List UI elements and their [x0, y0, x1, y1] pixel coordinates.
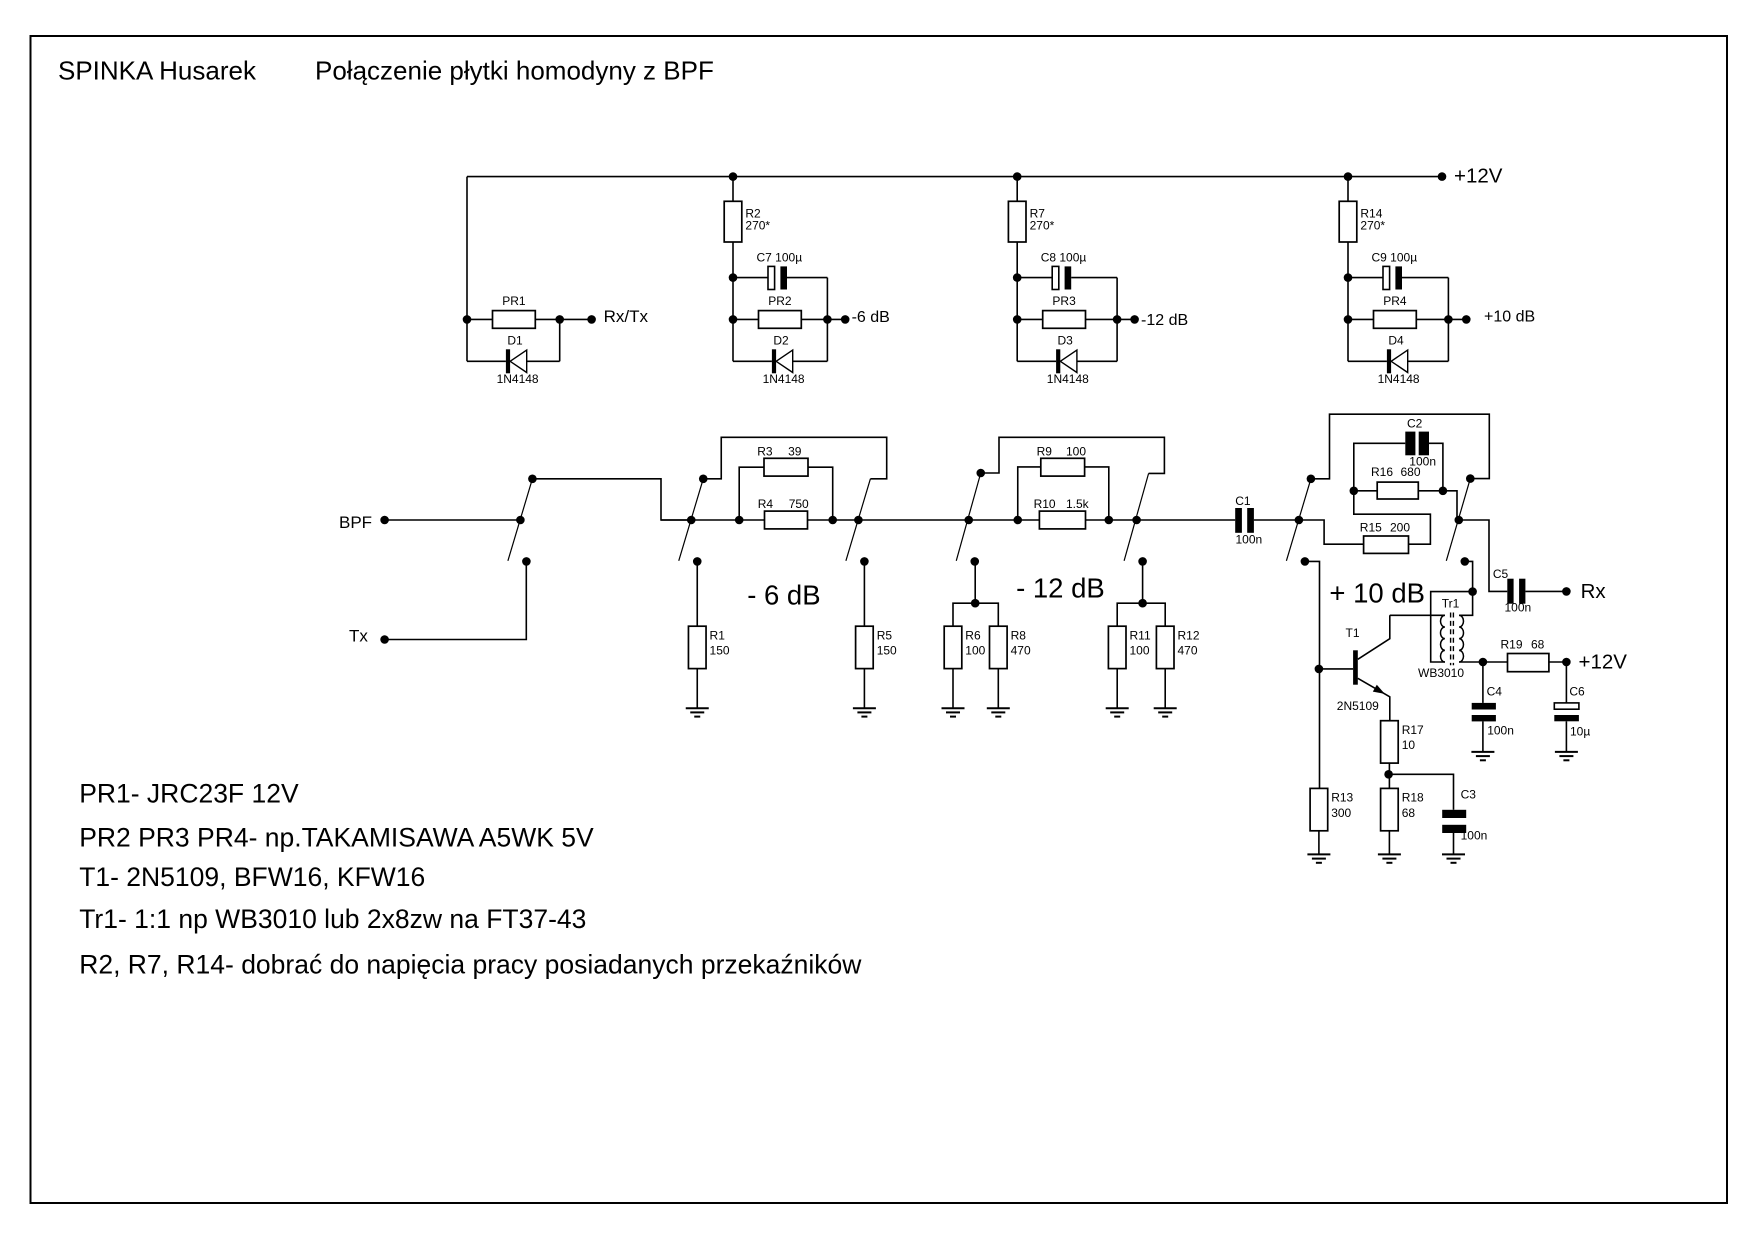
capacitor C3 100n — [1442, 787, 1487, 842]
svg-text:Tx: Tx — [349, 627, 368, 646]
relay contact switch SW1 (PR1) — [508, 475, 537, 566]
resistor R18 — [1381, 788, 1424, 830]
wire R9 branch right — [1085, 467, 1109, 520]
svg-text:300: 300 — [1331, 806, 1351, 820]
wire R3 branch left — [739, 467, 764, 520]
svg-text:10: 10 — [1402, 738, 1416, 752]
wire R16 right lead — [1418, 490, 1443, 492]
svg-text:100n: 100n — [1409, 454, 1436, 468]
junction R10 right — [1105, 516, 1114, 525]
svg-text:R2, R7, R14- dobrać do napięci: R2, R7, R14- dobrać do napięcia pracy po… — [79, 950, 862, 980]
relay contact switch SW2 (PR1) — [679, 475, 708, 566]
svg-text:+ 10 dB: + 10 dB — [1329, 578, 1425, 609]
relay coil PR1 — [467, 294, 560, 328]
wire main line -6dB section — [661, 519, 765, 521]
wire R6 to ground — [952, 669, 954, 709]
relay contact switch SW4 (PR2) — [956, 469, 985, 566]
wire R5 to ground — [863, 669, 865, 709]
junction R16 left — [1350, 487, 1359, 496]
svg-text:R12: R12 — [1178, 628, 1200, 642]
svg-text:100n: 100n — [1461, 828, 1488, 842]
diode D2 1N4148 — [763, 334, 805, 387]
svg-text:D3: D3 — [1058, 334, 1074, 348]
svg-text:270*: 270* — [1360, 219, 1385, 233]
node +12V (amp) — [1562, 651, 1627, 674]
svg-text:PR1: PR1 — [502, 294, 526, 308]
wire to C4 — [1482, 662, 1484, 703]
wire R2 to PR2 coil — [732, 242, 734, 361]
capacitor C1 100n — [1235, 494, 1262, 547]
svg-text:10µ: 10µ — [1570, 724, 1590, 738]
junction rail/R14 — [1344, 172, 1353, 181]
resistor R8 — [990, 626, 1031, 668]
wire C6 to ground — [1565, 721, 1567, 752]
junction PR4 right — [1444, 315, 1453, 324]
svg-text:C1: C1 — [1235, 494, 1251, 508]
svg-text:- 12 dB: - 12 dB — [1016, 573, 1105, 604]
svg-text:-6 dB: -6 dB — [852, 309, 890, 326]
wire Tr1 primary bottom loop — [1431, 592, 1473, 662]
ground R8 — [987, 708, 1010, 716]
node -6 dB — [841, 309, 890, 326]
svg-text:1N4148: 1N4148 — [763, 372, 805, 386]
svg-text:R4: R4 — [758, 497, 774, 511]
wire R13 to ground — [1318, 831, 1320, 855]
capacitor C6 10µ — [1554, 685, 1590, 739]
node +12V terminal — [1438, 165, 1503, 188]
wire R16 left lead — [1354, 490, 1377, 492]
wire Tx to SW1 lower contact — [385, 562, 527, 640]
wire rail to R7 — [1016, 177, 1018, 202]
junction R11/R12 tee — [1138, 599, 1147, 608]
wire amp bypass — [1311, 414, 1489, 479]
resistor R15 200 — [1360, 521, 1411, 554]
wire D1 anode loop — [467, 360, 506, 362]
svg-text:C4: C4 — [1487, 685, 1503, 699]
svg-text:C3: C3 — [1461, 787, 1477, 801]
junction R3 left — [735, 516, 744, 525]
wire R16 right to SW7 pole — [1443, 491, 1459, 520]
wire PR3 stub — [1117, 318, 1135, 320]
svg-text:PR2: PR2 — [768, 294, 792, 308]
svg-text:Tr1: Tr1 — [1442, 597, 1460, 611]
transformer Tr1 WB3010 — [1390, 597, 1465, 680]
wire junction to C3 — [1389, 774, 1454, 810]
wire D1 cathode loop — [527, 360, 560, 362]
wire to R19 — [1483, 661, 1508, 663]
wire -12dB bypass — [981, 437, 1164, 473]
wire tee to R12 — [1143, 603, 1166, 626]
svg-text:470: 470 — [1178, 644, 1198, 658]
wire SW1 upper to SW2 — [532, 479, 691, 520]
ground C4 — [1471, 752, 1494, 760]
wire SW7 pole to C5 — [1459, 520, 1508, 591]
resistor R16 680 — [1371, 465, 1421, 499]
svg-text:R5: R5 — [877, 628, 893, 642]
node +10 dB — [1462, 309, 1535, 326]
svg-text:R11: R11 — [1130, 628, 1151, 642]
wire C9 right to D4 — [1447, 278, 1449, 362]
svg-text:750: 750 — [789, 497, 809, 511]
svg-text:1N4148: 1N4148 — [497, 372, 539, 386]
svg-text:100n: 100n — [1487, 724, 1514, 738]
wire C3 to ground — [1453, 833, 1455, 854]
relay contact switch SW6 (PR4) — [1286, 475, 1315, 566]
ground R12 — [1154, 708, 1177, 716]
svg-text:Rx/Tx: Rx/Tx — [604, 307, 649, 326]
junction R4 right — [828, 516, 837, 525]
resistor R2 270* — [724, 201, 770, 242]
resistor R10 1.5k — [1034, 497, 1090, 529]
svg-text:2N5109: 2N5109 — [1337, 699, 1379, 713]
capacitor C7 100µ — [733, 250, 827, 289]
wire rail to PR1 coil — [466, 177, 468, 362]
junction Tr1 output node — [1468, 587, 1477, 596]
wire rail to R14 — [1347, 177, 1349, 202]
node BPF — [339, 513, 389, 532]
svg-text:T1: T1 — [1346, 626, 1360, 640]
svg-text:470: 470 — [1011, 644, 1031, 658]
junction T1 base node — [1315, 665, 1324, 674]
relay contact switch SW7 (PR4) — [1446, 474, 1474, 565]
wire C4 to ground — [1482, 721, 1484, 752]
wire SW4 lower to R6/R8 — [974, 561, 976, 603]
svg-text:150: 150 — [877, 644, 897, 658]
junction PR2 right — [823, 315, 832, 324]
svg-text:R13: R13 — [1331, 791, 1353, 805]
capacitor C2 100n — [1405, 416, 1436, 468]
svg-text:BPF: BPF — [339, 513, 372, 532]
svg-text:R16: R16 — [1371, 465, 1393, 479]
capacitor C8 100µ — [1017, 250, 1117, 289]
resistor R3 39 — [757, 444, 808, 476]
node -12 dB — [1130, 312, 1188, 329]
wire SW3 lower to R5 — [863, 561, 865, 626]
diode D3 1N4148 — [1047, 334, 1089, 387]
junction rail/R2 — [729, 172, 738, 181]
capacitor C5 100n — [1493, 567, 1531, 615]
svg-text:270*: 270* — [1030, 219, 1055, 233]
svg-text:R10: R10 — [1034, 497, 1056, 511]
junction PR3 left — [1013, 315, 1022, 324]
svg-text:R15: R15 — [1360, 521, 1382, 535]
wire D3 cathode loop — [1077, 360, 1117, 362]
svg-text:R19: R19 — [1501, 638, 1523, 652]
wire +12V rail — [467, 176, 1442, 178]
svg-text:+12V: +12V — [1454, 165, 1503, 188]
svg-text:-12 dB: -12 dB — [1141, 312, 1188, 329]
diode D1 1N4148 — [497, 334, 539, 387]
svg-text:WB3010: WB3010 — [1418, 666, 1464, 680]
capacitor C9 100µ — [1348, 250, 1448, 289]
wire C2 branch right — [1429, 443, 1443, 491]
resistor R12 — [1156, 626, 1199, 668]
wire SW5 lower to R11/R12 — [1142, 561, 1144, 603]
svg-text:SPINKA Husarek: SPINKA Husarek — [58, 56, 257, 86]
junction R9 left — [1013, 516, 1022, 525]
wire main line R10 to C1 — [1086, 519, 1236, 521]
relay coil PR2 — [733, 294, 827, 328]
svg-text:C5: C5 — [1493, 567, 1509, 581]
ground R1 — [686, 708, 709, 716]
wire SW6 pole to R15 — [1299, 520, 1364, 544]
junction C9 left — [1344, 273, 1353, 282]
junction R16 right — [1439, 487, 1448, 496]
notes text block — [79, 779, 862, 980]
wire PR4 stub — [1448, 318, 1466, 320]
svg-text:270*: 270* — [745, 219, 770, 233]
wire -6dB bypass — [703, 437, 886, 479]
wire R15 right to R16 left — [1354, 491, 1431, 544]
wire Tr1 secondary top — [1459, 592, 1473, 616]
svg-text:PR2 PR3 PR4- np.TAKAMISAWA A5W: PR2 PR3 PR4- np.TAKAMISAWA A5WK 5V — [79, 823, 594, 853]
relay contact switch SW3 (PR2) — [846, 479, 871, 566]
ground R18 — [1378, 854, 1401, 862]
wire R17 to R18 — [1388, 763, 1390, 788]
svg-text:C8 100µ: C8 100µ — [1041, 250, 1087, 264]
capacitor C4 100n — [1472, 685, 1514, 738]
svg-text:D2: D2 — [773, 334, 789, 348]
svg-text:68: 68 — [1531, 638, 1545, 652]
svg-text:+12V: +12V — [1579, 651, 1628, 674]
resistor R11 — [1108, 626, 1151, 668]
wire tee to R11 — [1117, 603, 1142, 626]
wire tee to R6 — [953, 603, 975, 626]
svg-text:R6: R6 — [965, 628, 981, 642]
resistor R4 750 — [758, 497, 809, 529]
svg-text:R1: R1 — [710, 628, 726, 642]
svg-text:100n: 100n — [1236, 533, 1263, 547]
junction C7 left — [729, 273, 738, 282]
ground C6 — [1555, 752, 1578, 760]
svg-text:PR3: PR3 — [1052, 294, 1076, 308]
wire tee to R8 — [975, 603, 998, 626]
wire D2 cathode loop — [793, 360, 828, 362]
wire PR2 stub — [827, 318, 845, 320]
svg-text:1N4148: 1N4148 — [1378, 372, 1420, 386]
svg-text:Rx: Rx — [1581, 580, 1607, 603]
svg-text:100n: 100n — [1505, 601, 1532, 615]
junction R6/R8 tee — [971, 599, 980, 608]
wire R9 branch left — [1018, 467, 1041, 520]
svg-text:1.5k: 1.5k — [1066, 497, 1090, 511]
resistor R6 — [944, 626, 985, 668]
wire main line R4 to R10 — [808, 519, 1040, 521]
svg-text:T1- 2N5109, BFW16, KFW16: T1- 2N5109, BFW16, KFW16 — [79, 862, 425, 892]
wire base node to R13 — [1319, 669, 1321, 789]
junction PR2 left — [729, 315, 738, 324]
wire D2 anode loop — [733, 360, 772, 362]
wire D3 anode loop — [1017, 360, 1056, 362]
relay contact switch SW5 (PR3) — [1124, 473, 1149, 565]
junction R17/R18/C3 — [1384, 770, 1393, 779]
svg-text:200: 200 — [1390, 521, 1410, 535]
wire R1 to ground — [696, 669, 698, 709]
junction PR3 right — [1113, 315, 1122, 324]
wire SW7 lower to Tr1 output — [1465, 561, 1472, 591]
wire C7 right to D2 — [826, 278, 828, 362]
wire R14 to PR4 coil — [1347, 242, 1349, 361]
resistor R5 — [856, 626, 897, 668]
ground C3 — [1442, 854, 1465, 862]
node Tx — [349, 627, 389, 646]
svg-text:39: 39 — [788, 444, 802, 458]
wire C5 to Rx — [1525, 590, 1566, 592]
svg-text:R18: R18 — [1402, 791, 1424, 805]
diode D4 1N4148 — [1378, 334, 1420, 387]
resistor R19 68 — [1501, 638, 1549, 672]
svg-text:Połączenie płytki homodyny z B: Połączenie płytki homodyny z BPF — [315, 56, 714, 86]
wire rail to R2 — [732, 177, 734, 202]
svg-text:R8: R8 — [1011, 628, 1027, 642]
svg-text:C7 100µ: C7 100µ — [757, 250, 803, 264]
resistor R14 270* — [1339, 201, 1385, 242]
wire Tr1 secondary bottom — [1459, 661, 1483, 663]
junction Tr1 secondary/R19/C4 — [1479, 658, 1488, 667]
svg-text:100: 100 — [1066, 444, 1086, 458]
wire R19 to +12V node — [1549, 661, 1567, 663]
ground R11 — [1106, 708, 1129, 716]
relay coil PR4 — [1348, 294, 1448, 328]
wire C8 right to D3 — [1116, 278, 1118, 362]
ground R13 — [1307, 854, 1330, 862]
svg-text:68: 68 — [1402, 806, 1416, 820]
wire SW6 lower to T1 base — [1306, 561, 1320, 669]
wire R12 to ground — [1164, 669, 1166, 709]
svg-text:R9: R9 — [1037, 444, 1053, 458]
svg-text:R17: R17 — [1402, 723, 1424, 737]
junction rail/R7 — [1013, 172, 1022, 181]
wire R3 branch right — [808, 467, 833, 520]
node Rx — [1562, 580, 1606, 603]
wire R18 to ground — [1388, 831, 1390, 855]
svg-text:+10 dB: +10 dB — [1484, 309, 1535, 326]
svg-text:D1: D1 — [507, 334, 523, 348]
svg-text:C2: C2 — [1407, 416, 1423, 430]
wire to C6 — [1565, 662, 1567, 703]
wire PR1 stub — [560, 318, 592, 320]
resistor R13 — [1310, 788, 1353, 830]
resistor R9 100 — [1037, 444, 1087, 476]
svg-text:C6: C6 — [1569, 685, 1585, 699]
svg-text:Tr1- 1:1 np WB3010 lub 2x8zw n: Tr1- 1:1 np WB3010 lub 2x8zw na FT37-43 — [79, 904, 586, 934]
wire R8 to ground — [997, 669, 999, 709]
ground R6 — [942, 708, 965, 716]
wire BPF to SW1 — [385, 519, 521, 521]
svg-text:PR4: PR4 — [1383, 294, 1407, 308]
svg-text:C9 100µ: C9 100µ — [1372, 250, 1418, 264]
resistor R1 — [688, 626, 729, 668]
wire R7 to PR3 coil — [1016, 242, 1018, 361]
junction PR1 left — [463, 315, 472, 324]
relay coil PR3 — [1017, 294, 1117, 328]
svg-text:100: 100 — [1130, 644, 1150, 658]
transistor T1 2N5109 — [1319, 615, 1390, 720]
wire C2 branch left — [1354, 443, 1406, 491]
svg-text:1N4148: 1N4148 — [1047, 372, 1089, 386]
wire D4 cathode loop — [1408, 360, 1449, 362]
wire PR1 right to D1 — [559, 319, 561, 361]
svg-text:150: 150 — [710, 644, 730, 658]
wire C1 to SW6 — [1254, 519, 1299, 521]
svg-text:PR1- JRC23F 12V: PR1- JRC23F 12V — [79, 779, 299, 809]
svg-text:- 6 dB: - 6 dB — [747, 579, 820, 610]
svg-text:100: 100 — [965, 644, 985, 658]
svg-text:R3: R3 — [757, 444, 773, 458]
wire R11 to ground — [1116, 669, 1118, 709]
wire D4 anode loop — [1348, 360, 1387, 362]
resistor R17 — [1381, 721, 1424, 763]
junction C8 left — [1013, 273, 1022, 282]
svg-text:D4: D4 — [1388, 334, 1404, 348]
junction PR1 right — [555, 315, 564, 324]
resistor R7 270* — [1008, 201, 1054, 242]
node Rx/Tx — [587, 307, 648, 326]
ground R5 — [853, 708, 876, 716]
wire SW2 lower to R1 — [696, 561, 698, 626]
junction PR4 left — [1344, 315, 1353, 324]
